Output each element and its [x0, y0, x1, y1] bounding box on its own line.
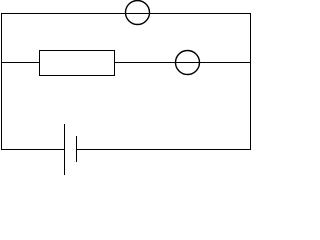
wire top: [1, 13, 251, 15]
wire left: [1, 13, 3, 150]
battery B1 short plate: [76, 136, 78, 162]
resistor R1 (box): [40, 51, 115, 76]
wire bottom right (from battery): [76, 149, 251, 151]
wire middle right (through meter A2 to right wire): [114, 62, 251, 64]
wire middle left (to resistor R1): [1, 62, 40, 64]
battery B1 long plate: [64, 124, 66, 175]
meter A2 (circle on middle wire): [176, 51, 200, 75]
wire right: [250, 13, 252, 150]
wire bottom left (to battery): [1, 149, 65, 151]
meter A1 (circle on top wire): [126, 1, 150, 25]
